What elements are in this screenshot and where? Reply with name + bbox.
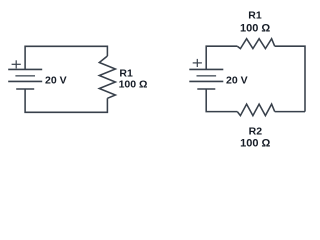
battery plate long bottom (8, 80, 42, 82)
battery plate long top (8, 68, 42, 70)
svg-text:100 Ω: 100 Ω (240, 22, 270, 34)
svg-text:20 V: 20 V (45, 75, 67, 87)
wire bottom right rail (right circuit) (275, 111, 305, 113)
resistor R2 (right circuit, horizontal zigzag bottom) (237, 104, 274, 116)
plus sign (right battery) (193, 62, 202, 64)
svg-text:20 V: 20 V (226, 75, 248, 87)
wire bottom rail (left circuit) (25, 89, 107, 112)
resistor R1 (right circuit, horizontal zigzag top) (237, 39, 274, 49)
battery plate short gray (197, 75, 217, 77)
svg-text:R1: R1 (119, 67, 133, 79)
battery plate short bottom (16, 88, 34, 90)
svg-text:R2: R2 (249, 126, 263, 138)
resistor R1 (left circuit, vertical zigzag) (99, 56, 115, 98)
plus sign (left battery) (12, 63, 21, 65)
wire bottom left (right circuit) (206, 89, 237, 112)
wire top right + right side (right circuit) (275, 46, 305, 111)
svg-text:100 Ω: 100 Ω (119, 79, 148, 91)
battery plate long top (189, 68, 223, 70)
battery plate short gray (15, 75, 35, 77)
svg-text:100 Ω: 100 Ω (240, 138, 270, 150)
wire left side top (right circuit) (206, 46, 237, 69)
battery plate short bottom (197, 88, 215, 90)
wire top rail (left circuit) (25, 46, 107, 69)
battery plate long bottom (189, 80, 223, 82)
svg-text:R1: R1 (248, 10, 262, 22)
